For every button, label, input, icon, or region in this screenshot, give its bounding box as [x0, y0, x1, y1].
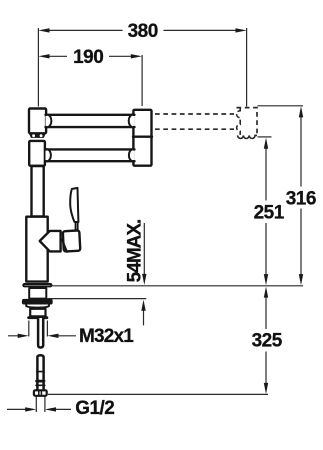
svg-text:251: 251 — [254, 203, 285, 224]
svg-text:325: 325 — [252, 331, 283, 352]
svg-text:54MAX.: 54MAX. — [125, 220, 146, 283]
svg-text:380: 380 — [128, 21, 158, 42]
svg-text:190: 190 — [73, 47, 103, 68]
svg-text:G1/2: G1/2 — [75, 398, 114, 419]
svg-text:316: 316 — [286, 188, 316, 209]
svg-text:M32x1: M32x1 — [79, 326, 134, 347]
